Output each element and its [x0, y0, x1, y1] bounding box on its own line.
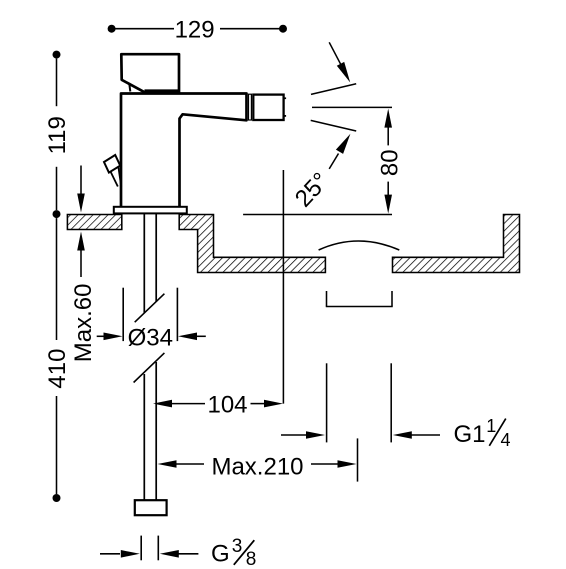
svg-text:G: G [211, 540, 230, 567]
svg-text:Max.210: Max.210 [211, 453, 303, 480]
svg-text:4: 4 [500, 430, 510, 450]
svg-text:8: 8 [246, 549, 257, 569]
svg-text:Ø34: Ø34 [128, 325, 173, 352]
svg-text:119: 119 [44, 116, 71, 154]
svg-text:1: 1 [486, 416, 496, 436]
svg-text:Max.60: Max.60 [70, 284, 97, 363]
svg-text:410: 410 [44, 349, 71, 389]
svg-text:80: 80 [376, 149, 403, 176]
svg-text:G1: G1 [454, 421, 486, 448]
svg-text:129: 129 [175, 16, 215, 43]
svg-text:104: 104 [207, 391, 247, 418]
svg-text:3: 3 [232, 536, 243, 557]
